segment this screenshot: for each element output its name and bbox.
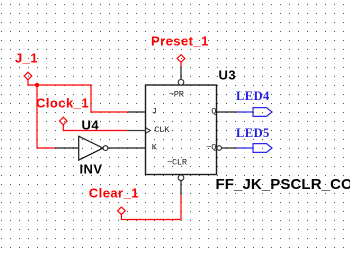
bubble on ~CLR pin — [178, 175, 184, 195]
wire junction to inverter input — [37, 85, 55, 148]
inverter U4 — [79, 118, 108, 177]
wire inverter output to K pin — [108, 147, 146, 149]
wire ~Q pin stub — [222, 147, 237, 149]
svg-text:CLK: CLK — [154, 125, 170, 135]
junction on J_1 net — [35, 83, 39, 87]
svg-text:Clock_1: Clock_1 — [36, 95, 89, 110]
clock wedge on CLK pin — [146, 128, 151, 134]
svg-text:LED4: LED4 — [236, 89, 270, 103]
wire inverter input pin — [55, 147, 79, 149]
svg-text:Q: Q — [211, 106, 216, 116]
wire blue Q net — [237, 111, 254, 113]
connector LED5 — [236, 126, 272, 152]
svg-text:J_1: J_1 — [15, 51, 38, 66]
svg-text:FF_JK_PSCLR_CO: FF_JK_PSCLR_CO — [216, 176, 350, 193]
wire blue ~Q net — [237, 147, 254, 149]
wire J pin stub — [128, 111, 146, 113]
svg-text:~Q: ~Q — [206, 142, 216, 152]
wire Preset_1 stub — [180, 62, 182, 66]
flip-flop U3 body — [146, 67, 237, 174]
svg-text:INV: INV — [80, 161, 103, 176]
wire J_1 to J pin — [28, 80, 128, 112]
svg-text:Clear_1: Clear_1 — [89, 185, 139, 200]
bubble on ~Q pin — [217, 146, 222, 151]
connector LED4 — [236, 89, 272, 116]
svg-text:Preset_1: Preset_1 — [151, 33, 209, 48]
wire Clear_1 to CLR pin — [121, 195, 181, 220]
svg-text:U4: U4 — [82, 118, 100, 133]
svg-text:~CLR: ~CLR — [167, 157, 187, 167]
svg-text:LED5: LED5 — [236, 126, 270, 140]
wire Clock_1 to CLK pin — [63, 125, 126, 131]
svg-text:~PR: ~PR — [169, 89, 184, 99]
svg-text:J: J — [152, 106, 157, 116]
svg-text:U3: U3 — [219, 67, 237, 82]
terminal Clear_1 — [89, 185, 139, 214]
bubble on ~PR pin — [178, 67, 184, 86]
terminal J_1 — [15, 51, 38, 80]
wire CLK pin stub — [127, 130, 146, 132]
terminal Clock_1 — [36, 95, 89, 124]
terminal Preset_1 — [151, 33, 209, 62]
wire Q pin stub — [217, 111, 237, 113]
